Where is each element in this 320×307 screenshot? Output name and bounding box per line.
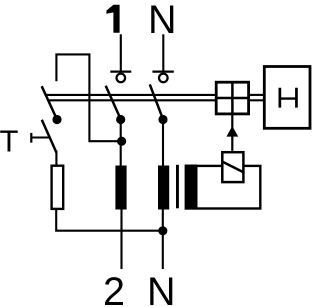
- wire: test blade to resistor: [55, 151, 57, 166]
- primary winding bar, phase conductor: [115, 166, 126, 210]
- toroidal core bar: [176, 165, 179, 209]
- terminal 1 fixed contact bar: [110, 70, 131, 72]
- mechanical link (double line) left section, upper: [45, 94, 216, 96]
- wire: N pole to primary winding: [162, 120, 164, 166]
- mechanical link (double line) right section, upper: [249, 94, 264, 96]
- terminal N fixed contact bar: [152, 70, 173, 72]
- svg-text:N: N: [147, 270, 176, 307]
- junction dot, pole N hinge: [158, 115, 167, 124]
- test button actuator rod: [31, 136, 49, 138]
- handle box H: [264, 67, 310, 129]
- wire: test-circuit tap loop from phase: [56, 54, 121, 141]
- mechanical link (double line) right section, lower: [249, 99, 264, 101]
- node label 1 (top terminal): [106, 5, 119, 33]
- mechanical link (double line) left section, lower: [48, 99, 217, 101]
- wire: lead from terminal N: [162, 34, 164, 70]
- wire: relay to trip mechanism: [231, 115, 233, 151]
- switch blade, pole N: [150, 84, 163, 119]
- switch blade, ganged test contact: [42, 86, 57, 119]
- svg-text:2: 2: [103, 270, 125, 307]
- wire: lead from terminal 1: [120, 34, 122, 70]
- junction dot, tap on phase wire: [117, 137, 126, 146]
- junction dot, pole 1 hinge: [116, 115, 125, 124]
- crossed square vertical divider: [231, 82, 234, 114]
- actuation arrowhead: [226, 126, 238, 137]
- switch blade, pole 1: [106, 86, 121, 120]
- junction dot, test contact hinge: [52, 115, 61, 124]
- wire: resistor to neutral junction: [56, 209, 163, 231]
- label H (handle): [279, 88, 298, 108]
- wire: phase pole to primary winding: [120, 120, 122, 166]
- terminal N contact circle: [159, 74, 168, 83]
- trip mechanism crossed square: [216, 82, 248, 114]
- switch blade, test push-button contact: [42, 120, 57, 153]
- crossed square horizontal divider: [216, 97, 248, 100]
- wire: neutral winding to terminal N bottom: [162, 210, 164, 270]
- relay diagonal stroke: [223, 162, 244, 172]
- primary winding bar, neutral conductor: [158, 166, 169, 210]
- junction dot, test circuit on neutral: [158, 226, 167, 235]
- test button actuator end bar: [30, 133, 32, 143]
- wire: phase winding to terminal 2: [120, 210, 122, 270]
- resistor R (test resistor): [52, 166, 64, 209]
- secondary winding bar: [185, 165, 197, 209]
- terminal 1 contact circle: [117, 74, 126, 83]
- trip solenoid enclosure outline: [186, 166, 260, 209]
- svg-text:T: T: [0, 124, 19, 159]
- relay (permanent-magnet release) box: [222, 152, 243, 182]
